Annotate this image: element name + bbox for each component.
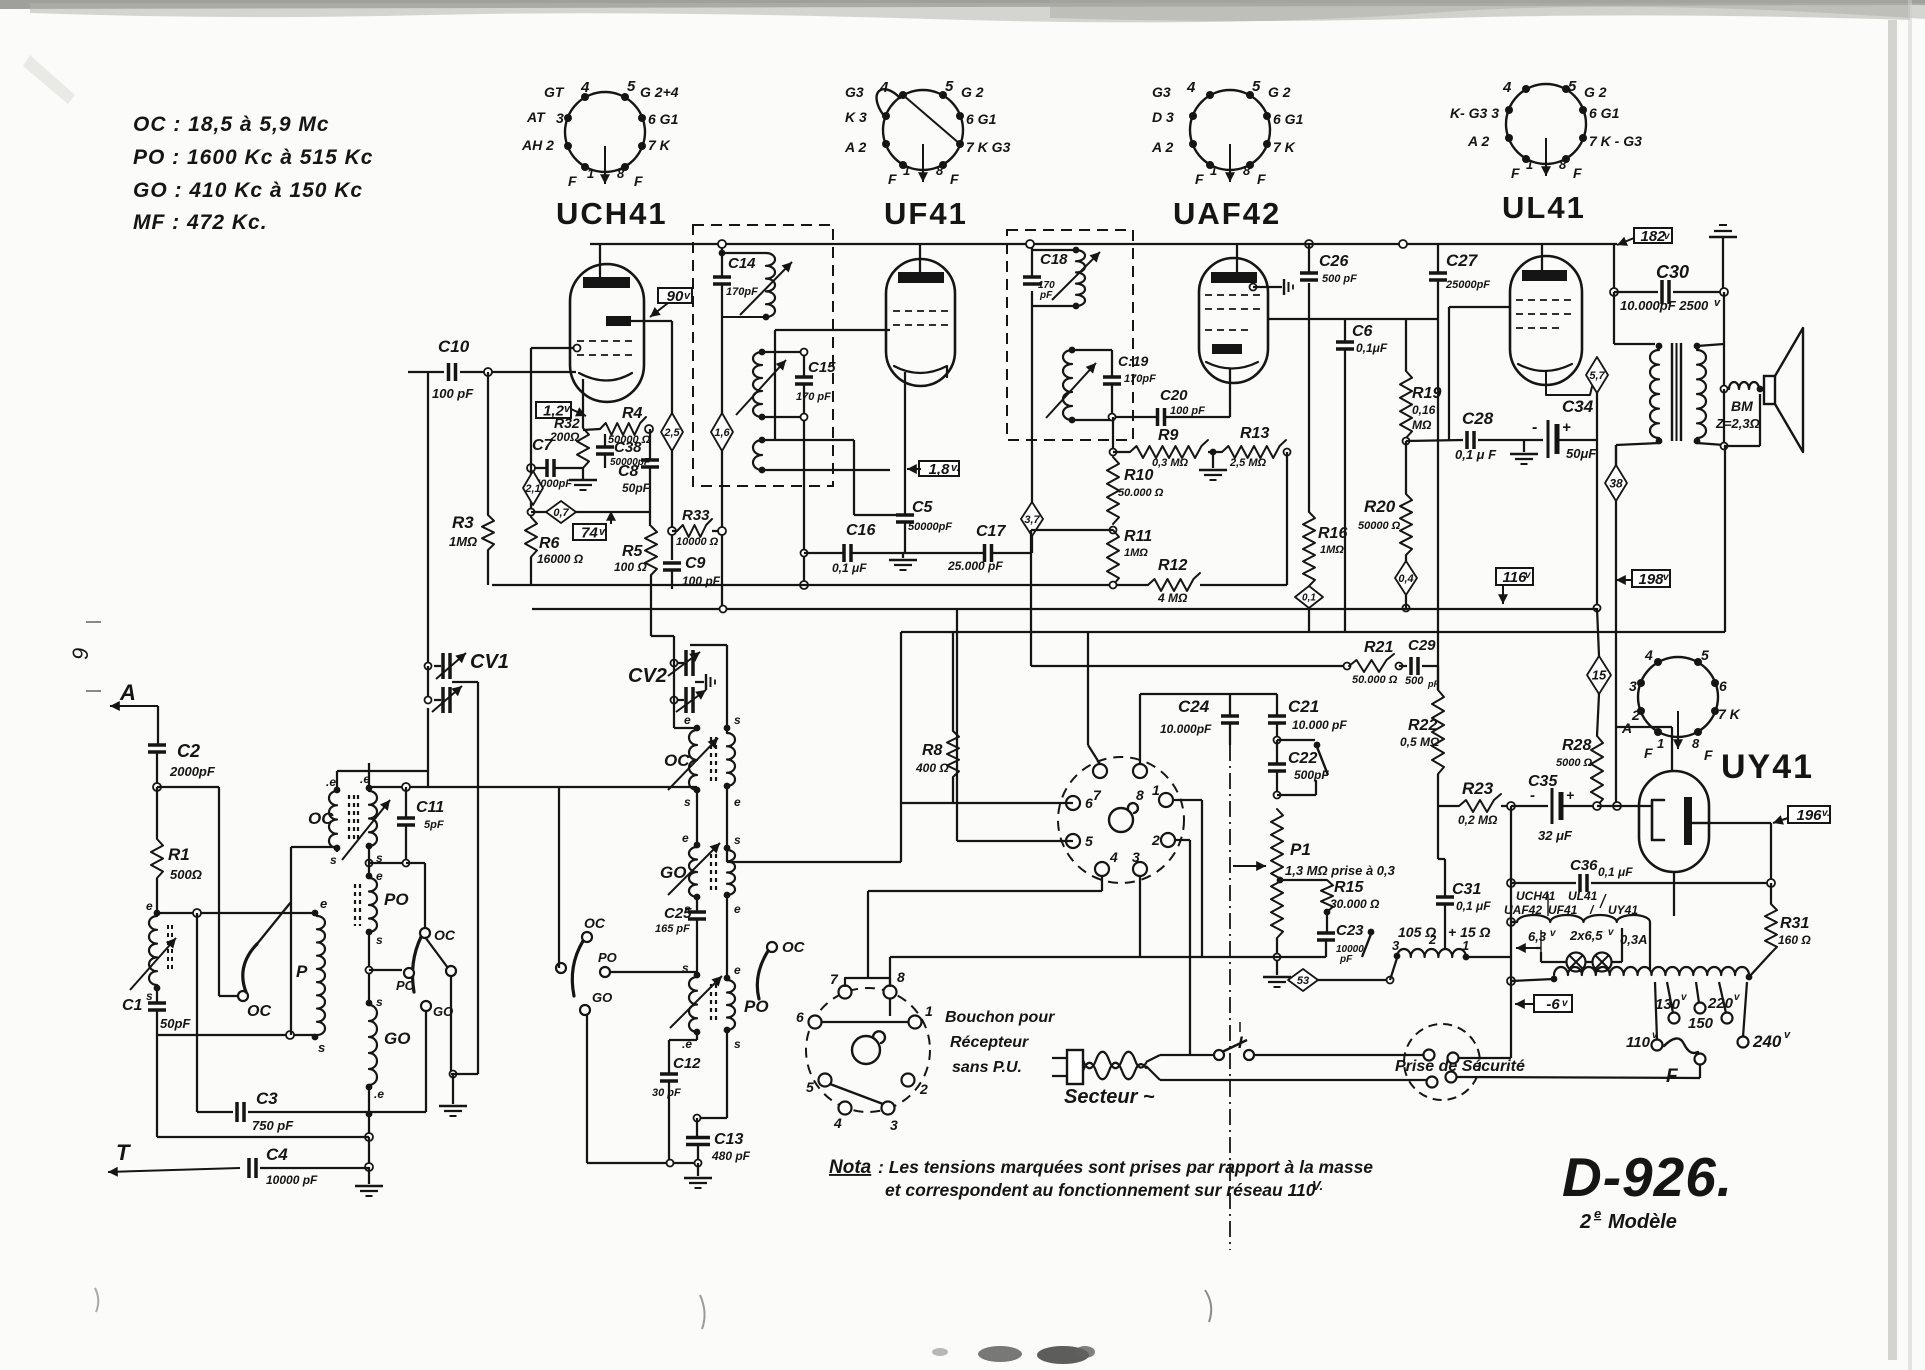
P1 bottom / ground / 53 diamond [1276,938,1278,961]
bottom rail with ground [587,1162,698,1164]
svg-text:10000 pF: 10000 pF [266,1173,318,1187]
svg-text:C16: C16 [846,522,875,539]
svg-text:-: - [1532,419,1537,436]
capacitor C8 [649,429,651,460]
V3 cathode [1206,362,1258,369]
wire y530 [1031,529,1113,531]
svg-text:e: e [376,869,383,883]
svg-text:Nota: Nota [829,1157,872,1178]
svg-text:+ 15 Ω: + 15 Ω [1448,924,1491,940]
svg-text:1,8: 1,8 [929,461,951,478]
socket center key [1109,803,1138,832]
diamond 0,1 [1295,586,1323,608]
capacitor C22 + switch [1276,740,1278,764]
svg-text:C30: C30 [1656,262,1689,282]
svg-text:.e: .e [374,1087,384,1101]
V1 grid dashed [577,340,637,342]
svg-text:R10: R10 [1124,467,1153,484]
svg-text:C7: C7 [532,437,554,454]
mechanical dash-dot link [1229,745,1231,1250]
svg-text:D 3: D 3 [1152,109,1174,125]
svg-text:+: + [1566,787,1574,803]
C25 area verticals to C12/C13 [696,1032,698,1040]
T1 right wires [368,763,370,791]
svg-text:R8: R8 [922,742,943,759]
svg-text:R33: R33 [682,507,710,524]
resistor R1 [156,787,158,839]
svg-text:6: 6 [1719,678,1727,694]
196V box [1788,806,1830,823]
capacitor C26 [1305,240,1313,248]
bus y632 [901,631,1725,633]
right bus vertical x1725 [1724,446,1726,632]
svg-text:200Ω: 200Ω [549,430,580,444]
svg-text:480 pF: 480 pF [711,1149,751,1163]
svg-text:7: 7 [830,971,839,987]
svg-text:C22: C22 [1288,750,1317,767]
svg-text:500Ω: 500Ω [170,867,202,882]
svg-text:50000 Ω: 50000 Ω [1358,520,1401,532]
svg-text:Récepteur: Récepteur [950,1034,1029,1051]
svg-text:F: F [950,171,959,187]
tube UF41 (V2) envelope [886,259,955,386]
svg-text:500 pF: 500 pF [1322,273,1357,285]
svg-text:+: + [1562,419,1571,436]
coupling coil under C15 [753,440,762,470]
svg-text:R12: R12 [1158,557,1187,574]
svg-text:198: 198 [1638,571,1664,588]
V4 cathode [1518,364,1572,371]
svg-text:PO : 1600 Kc à 515 Kc: PO : 1600 Kc à 515 Kc [133,146,373,169]
svg-text:53: 53 [1297,975,1309,987]
svg-text:7 K: 7 K [648,137,671,153]
C36 [1507,879,1515,887]
V1 anode2 bar [606,316,631,326]
svg-text:C25: C25 [664,905,692,922]
svg-text:v: v [564,403,571,415]
svg-text:9: 9 [68,648,93,660]
potentiometer P1 [1271,809,1283,938]
y787 connect CV1 column to switch column [428,786,559,788]
svg-text:G 2: G 2 [1268,84,1291,100]
svg-text:C8: C8 [618,463,639,480]
capacitor C19 [1103,375,1121,379]
svg-text:C14: C14 [728,255,756,272]
diamond 38 [1615,445,1617,466]
svg-text:1: 1 [1526,157,1533,172]
R22/C29 node column [1437,665,1439,667]
svg-text:F: F [1573,165,1582,181]
svg-text:6: 6 [1085,795,1093,811]
resistor R33 [668,527,676,535]
R15 [1277,877,1284,884]
svg-text:v.: v. [951,462,960,474]
R19 [1405,319,1407,371]
mains cord & plug [1067,1050,1083,1084]
svg-text:Secteur ~: Secteur ~ [1064,1086,1155,1108]
svg-text:32 μF: 32 μF [1538,828,1573,843]
svg-text:R28: R28 [1562,737,1591,754]
capacitor C25 [696,897,698,912]
svg-text:5: 5 [806,1079,814,1095]
C28 [1406,440,1463,441]
tube UAF42 (V3) envelope [1199,258,1268,383]
svg-text:8: 8 [617,166,625,181]
svg-text:v.: v. [1822,808,1830,819]
tube socket UY41 [1638,657,1718,737]
node on x1597 [1596,440,1598,608]
svg-text:T: T [116,1140,131,1165]
voltage 90V [658,288,692,303]
V1 grid lead left [531,347,573,349]
svg-text:s: s [330,853,337,867]
svg-text:0,16: 0,16 [1412,403,1436,417]
T1 left s to down-wire [336,848,338,852]
Bouchon socket (dashed circle) [806,988,930,1112]
svg-text:C27: C27 [1446,251,1479,270]
svg-text:182: 182 [1640,228,1666,245]
svg-text:UCH41: UCH41 [556,196,668,231]
svg-text:8: 8 [1559,157,1567,172]
svg-text:110: 110 [1626,1034,1651,1051]
resistor R11 [1110,527,1117,534]
svg-text:C29: C29 [1408,637,1436,654]
svg-text:C31: C31 [1452,881,1481,898]
R21 C29 line [1030,530,1032,666]
svg-text:G 2: G 2 [961,84,984,100]
svg-text:196: 196 [1796,807,1822,824]
svg-text:AT: AT [526,109,546,125]
svg-text:PO: PO [744,997,769,1016]
svg-text:6: 6 [796,1009,804,1025]
svg-text:10000 Ω: 10000 Ω [676,536,719,548]
svg-text:1: 1 [903,163,910,178]
top rail y694 and C24/C21 [1140,693,1277,695]
R28 [1591,736,1603,806]
output transformer [1613,292,1615,344]
capacitor C12 [668,1040,670,1074]
svg-text:OC: OC [782,939,806,956]
svg-text:UL41: UL41 [1568,889,1598,903]
diamond 0,7 [528,509,535,516]
svg-text:C5: C5 [912,499,934,516]
svg-text:GT: GT [544,84,565,100]
ground under C28/C34 [1523,440,1525,452]
svg-text:UAF42: UAF42 [1173,196,1281,231]
svg-text:OC: OC [584,915,606,931]
svg-text:0,1 μF: 0,1 μF [1598,865,1633,879]
svg-text:pF: pF [1039,290,1053,301]
diamond 2,5 [671,321,673,414]
svg-text:2000pF: 2000pF [169,764,216,779]
svg-text:0,1 μ F: 0,1 μ F [1455,447,1497,462]
svg-text:s: s [376,933,383,947]
capacitor C11 [405,787,407,818]
x1511 main vertical [1510,806,1512,1058]
tube UCH41 (V1) envelope [570,264,644,402]
svg-text:A 2: A 2 [844,139,866,155]
svg-text:C:19: C:19 [1118,353,1149,369]
C30 line + ground top [1613,244,1615,292]
svg-text:0,4: 0,4 [1398,573,1413,585]
svg-text:R31: R31 [1780,915,1809,932]
left switch to bottom [586,1015,588,1163]
screen feed line y319 [1268,318,1438,320]
OC transformer T2 [673,700,675,728]
svg-text:e: e [684,713,691,727]
svg-text:e: e [734,795,741,809]
svg-text:v: v [599,526,606,538]
svg-text:7 K G3: 7 K G3 [966,139,1011,155]
svg-text:50000pF: 50000pF [908,521,952,533]
svg-text:4: 4 [580,79,590,96]
wire from C2 node to bottom OC switch [157,786,219,788]
svg-text:UY41: UY41 [1721,748,1814,786]
wire s-line [156,1034,315,1036]
svg-text:220: 220 [1707,995,1734,1012]
svg-text:—: — [86,682,101,699]
T1 left e up wire [336,771,338,791]
svg-text:1,6: 1,6 [714,427,730,439]
svg-text:3: 3 [1629,678,1637,694]
CV1 variable capacitor [427,372,429,662]
svg-text:6 G1: 6 G1 [1273,111,1304,127]
svg-text:R22: R22 [1408,717,1437,734]
GO coil [366,1000,373,1007]
svg-text:s: s [376,995,383,1009]
svg-text:25.000 pF: 25.000 pF [947,559,1003,573]
R8 [952,632,954,731]
svg-text:0,3 MΩ: 0,3 MΩ [1152,457,1189,469]
svg-text:BM: BM [1731,398,1753,414]
116V box [1496,568,1533,585]
resistor R10 [1107,457,1119,524]
tube UY41 (V5) envelope [1639,771,1709,872]
voice coil + speaker [1729,382,1759,389]
resistor R13 [1222,440,1286,458]
svg-text:0,1 μF: 0,1 μF [1456,899,1491,913]
resistor R32 [577,428,589,468]
svg-text:v: v [1714,297,1721,309]
svg-text:7: 7 [1093,787,1102,803]
CV1 right wire down [451,665,453,667]
svg-text:F: F [568,173,577,189]
svg-text:500: 500 [1405,675,1424,687]
T1 core dashed [348,795,350,843]
GO transformer T3 [694,842,701,849]
svg-text:R32: R32 [554,415,580,431]
svg-text:OC: OC [308,809,334,828]
svg-text:15: 15 [1592,668,1607,683]
capacitor C13 [726,895,728,980]
ground under C5/C16 [902,553,904,558]
left wave switch [582,932,592,942]
capacitor C6 [1344,319,1346,342]
voltage 74V [573,524,606,540]
svg-text:5,7: 5,7 [1589,370,1605,382]
svg-text:F: F [888,171,897,187]
capacitor C2 [148,743,166,747]
svg-text:5: 5 [1701,647,1709,663]
speaker horn [1764,376,1775,404]
V4 grid lead left [1449,306,1510,308]
svg-text:s: s [734,1037,741,1051]
C26/R16 vertical continuation [1308,608,1310,632]
antenna coil core (dashed) [167,925,169,973]
main filament winding [1507,977,1515,985]
svg-text:C21: C21 [1288,697,1319,716]
svg-text:3: 3 [556,110,564,126]
svg-text:R6: R6 [539,535,560,552]
svg-text:30.000 Ω: 30.000 Ω [1330,897,1380,911]
svg-text:1: 1 [587,166,594,181]
svg-text:8: 8 [1243,163,1251,178]
svg-text:s: s [318,1040,325,1055]
svg-text:C12: C12 [673,1055,701,1072]
svg-text:PO: PO [384,890,409,909]
Bouchon 7-8 bracket [845,978,890,986]
svg-text:F: F [1666,1066,1679,1087]
capacitor C15 [803,352,805,377]
svg-text:2,1: 2,1 [524,483,540,495]
svg-text:A 2: A 2 [1467,133,1489,149]
diamond 2,1 [523,471,543,505]
svg-text:Bouchon pour: Bouchon pour [945,1009,1055,1026]
svg-text:R15: R15 [1334,879,1364,896]
svg-text:16000 Ω: 16000 Ω [537,552,584,566]
svg-text:4 MΩ: 4 MΩ [1157,591,1188,605]
wire tube2 grid return [853,440,855,515]
coil L-C14 [766,253,775,317]
Bouchon center key [852,1031,885,1064]
svg-text:MΩ: MΩ [1412,418,1432,432]
T2 bottom wires [696,790,698,845]
svg-text:OC: OC [664,751,690,770]
svg-text:e: e [734,902,741,916]
svg-text:e: e [1594,1206,1601,1221]
svg-text:R13: R13 [1240,425,1269,442]
V5 top lead [1671,727,1673,771]
svg-text:R16: R16 [1318,525,1347,542]
coil L-C15 [753,352,762,417]
svg-text:50μF: 50μF [1566,446,1597,461]
svg-text:2: 2 [919,1081,928,1097]
voltage 1,8V [919,461,959,476]
voltage 1,2V [536,402,571,418]
svg-text:GO: GO [592,990,612,1005]
svg-text:38: 38 [1609,476,1623,490]
svg-text:1: 1 [1210,163,1217,178]
svg-text:10.000pF 2500: 10.000pF 2500 [1620,298,1709,313]
svg-text:R21: R21 [1364,639,1393,656]
svg-text:100 pF: 100 pF [1170,405,1205,417]
socket pin wires [1088,745,1100,764]
bus y585 [492,584,1148,586]
svg-text:C23: C23 [1336,922,1364,939]
svg-text:Prise de Sécurité: Prise de Sécurité [1395,1058,1525,1075]
svg-text:170pF: 170pF [1124,373,1156,385]
capacitor C27 [1437,244,1439,273]
V3 diode anode bar [1212,344,1242,354]
svg-text:5: 5 [945,78,954,95]
svg-text:4: 4 [879,79,889,96]
svg-text:0,7: 0,7 [553,507,569,519]
PO transformer T4 [694,972,701,979]
svg-text:6 G1: 6 G1 [1589,105,1620,121]
182V box [1634,228,1672,243]
resistor R12 [1148,573,1200,591]
svg-text:AH 2: AH 2 [521,137,554,153]
svg-text:A 2: A 2 [1151,139,1173,155]
svg-text:C36: C36 [1570,857,1598,874]
bottom rail y957 [890,956,1326,958]
svg-text:PO: PO [598,950,617,965]
svg-text:G3: G3 [1152,84,1171,100]
V1 wire top lead [599,244,601,277]
capacitor C21 [1276,694,1278,716]
IF transformer dashed box 1 [693,225,833,486]
UY41 heater stub [1673,872,1675,916]
svg-text:F: F [1195,171,1204,187]
node/wire e-line [155,912,315,914]
coil L-C18 [1076,250,1085,306]
svg-text:50.000 Ω: 50.000 Ω [1352,674,1398,686]
svg-text:C15: C15 [808,359,836,376]
svg-text:3: 3 [890,1117,898,1133]
tube socket UL41 [1506,84,1586,164]
wire from CV1 bottom to OC coil [427,708,429,787]
svg-text:C26: C26 [1319,253,1348,270]
svg-text:25000pF: 25000pF [1445,279,1490,291]
antenna coil OC [154,910,161,917]
V2 grid lead left [775,329,890,331]
tube UL41 (V4) envelope [1510,256,1582,385]
svg-text:170pF: 170pF [726,286,758,298]
diamond 5,7 [1586,357,1608,393]
resistor R3 [487,372,489,515]
fuse F [1664,1038,1698,1053]
svg-text:5pF: 5pF [424,819,444,831]
capacitor C1 [156,988,158,1003]
svg-text:50pF: 50pF [160,1016,191,1031]
svg-text:1MΩ: 1MΩ [1124,547,1148,559]
svg-text:F: F [1704,747,1713,763]
svg-text:1: 1 [1152,782,1160,798]
svg-text:.e: .e [326,775,336,789]
svg-text:C34: C34 [1562,397,1594,416]
svg-text:0,2 MΩ: 0,2 MΩ [1458,813,1498,827]
V1 cathode [579,373,632,381]
svg-text:R4: R4 [622,405,643,422]
capacitor C5 [854,514,896,516]
capacitor C38 [604,434,606,447]
svg-text:C38: C38 [614,439,642,456]
svg-text:4: 4 [1186,79,1196,96]
resistor R9 [1112,417,1114,452]
svg-text:CV2: CV2 [628,665,667,687]
capacitor C18 [1031,244,1033,277]
8-pin chassis socket (dashed) [1058,757,1184,883]
svg-text:50pF: 50pF [622,481,651,495]
svg-text:OC: OC [247,1003,271,1020]
Bouchon 5-3 lever [830,1084,883,1104]
svg-text:C4: C4 [266,1145,288,1164]
svg-text:0,1: 0,1 [1302,593,1316,604]
svg-text:—: — [86,613,101,630]
svg-text:P1: P1 [1290,840,1311,859]
svg-text:1: 1 [1657,736,1664,751]
OC transformer T1 left coil [334,787,341,794]
